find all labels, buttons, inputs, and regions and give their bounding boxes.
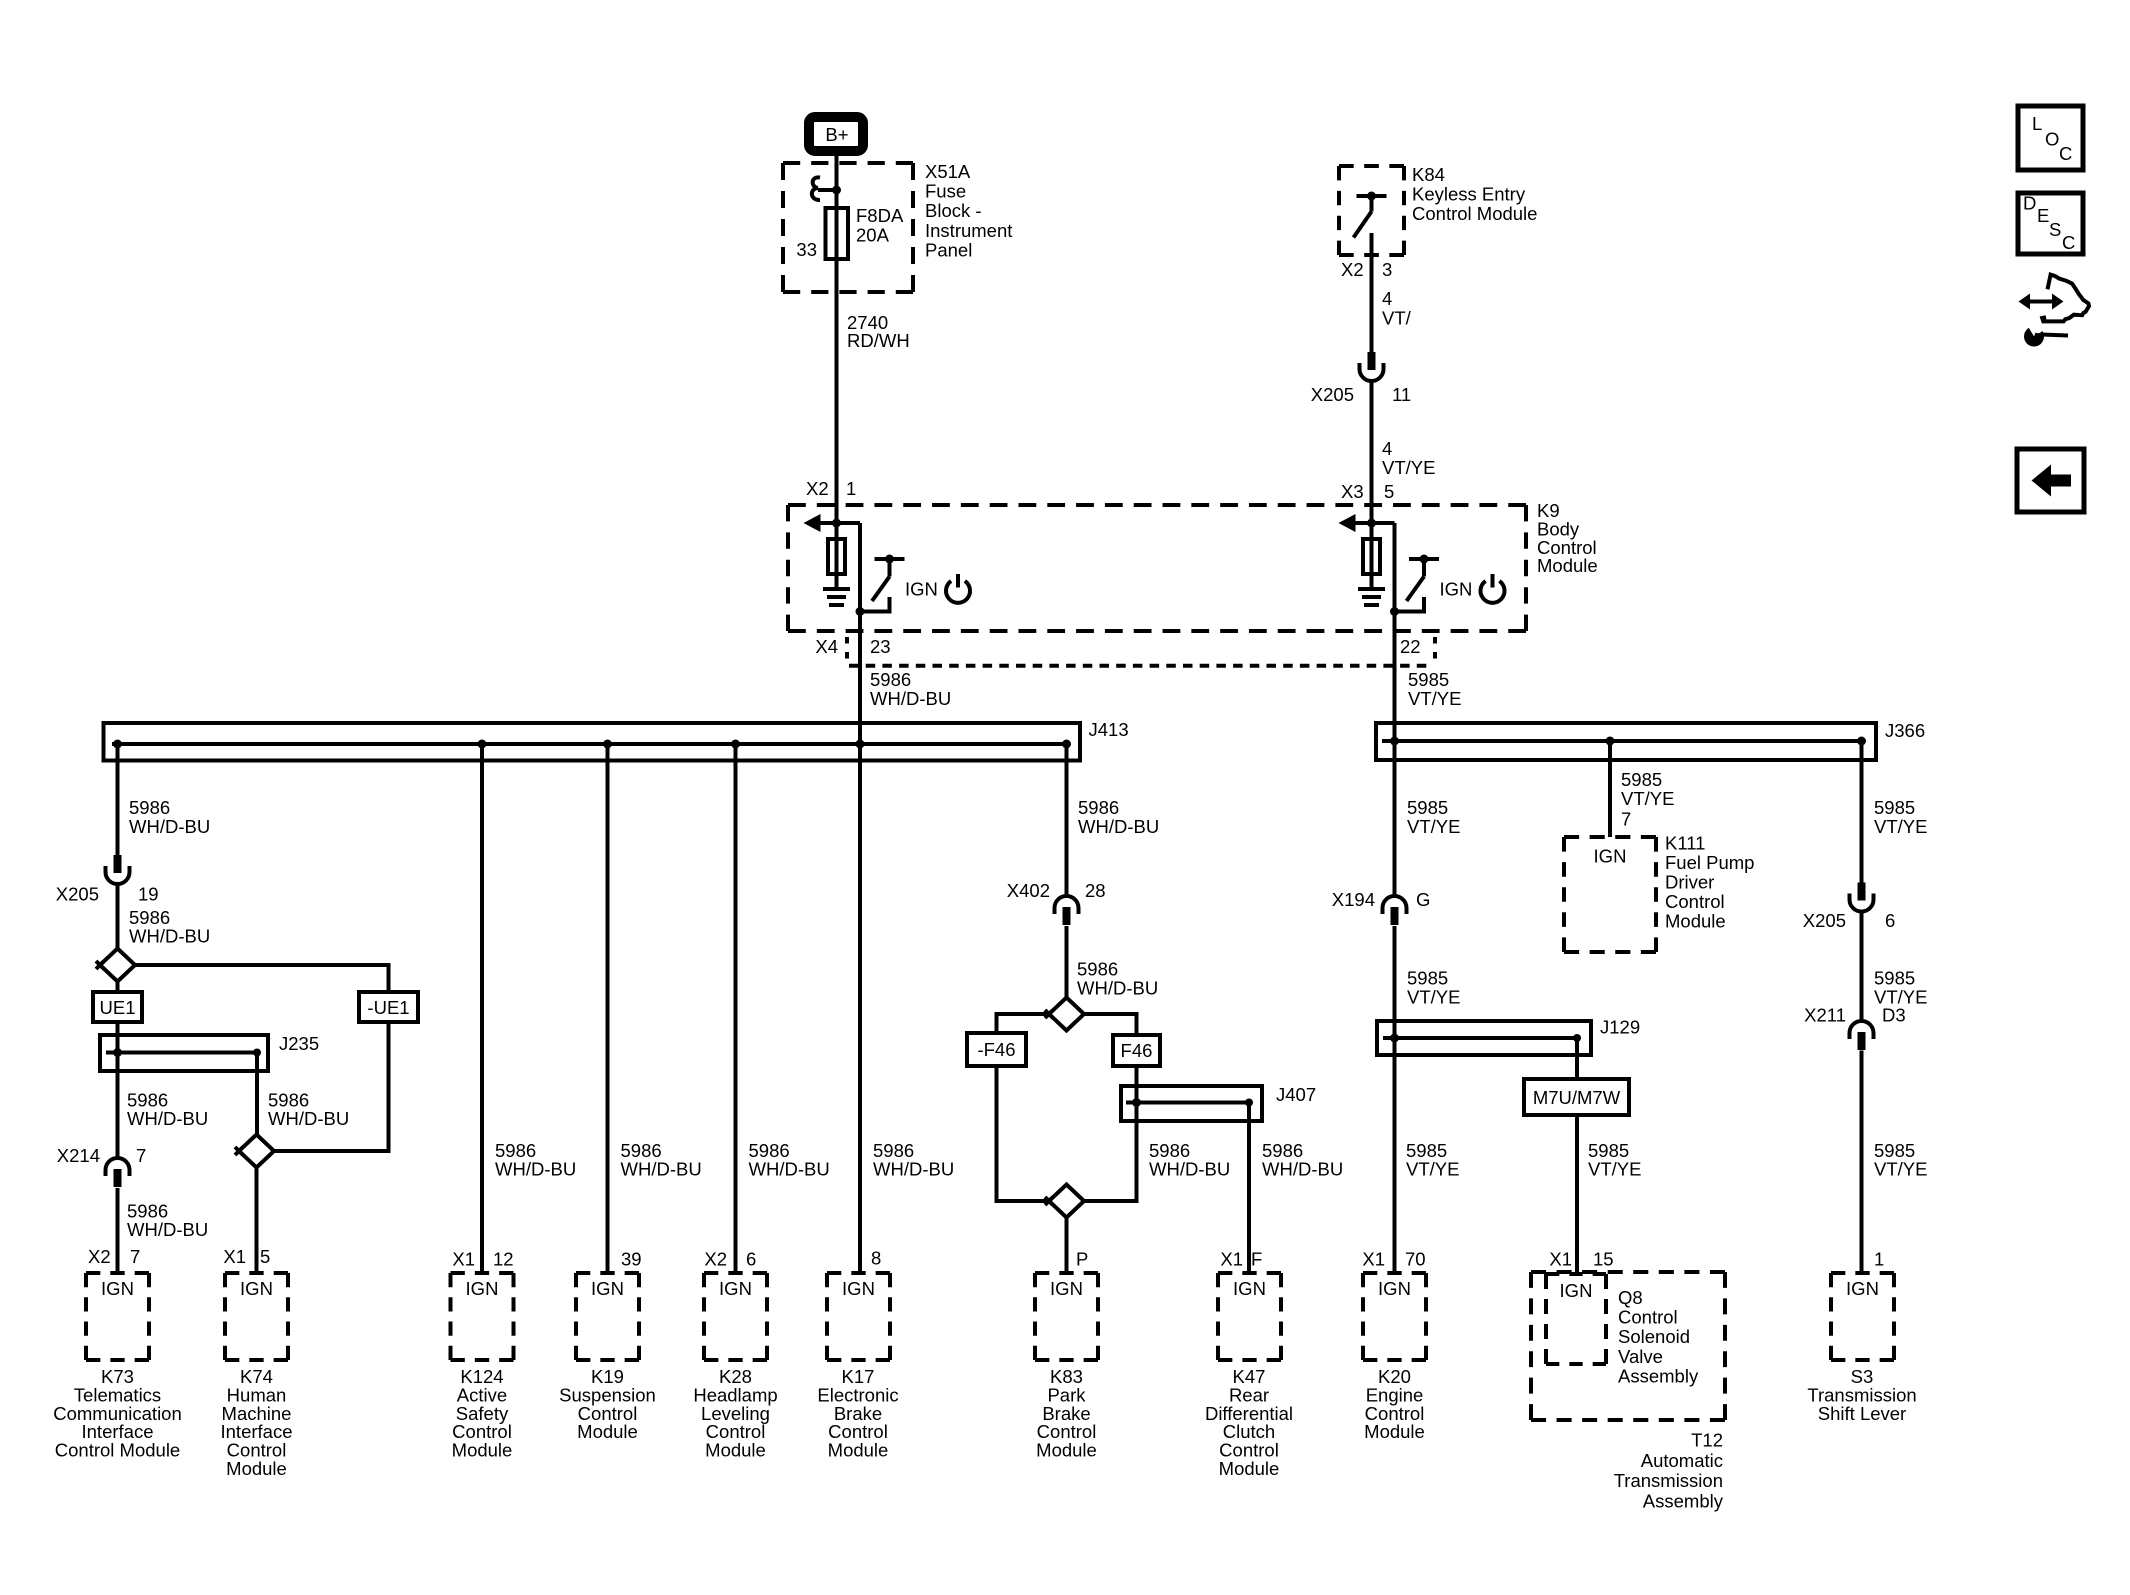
svg-text:Valve: Valve — [1618, 1346, 1663, 1367]
svg-text:X211: X211 — [1804, 1005, 1846, 1026]
node: J129 tap — [1390, 1034, 1399, 1043]
svg-text:5985: 5985 — [1407, 968, 1448, 989]
wire: through resistor to ground — [1370, 523, 1374, 587]
svg-text:VT/: VT/ — [1382, 308, 1412, 329]
svg-text:7: 7 — [1621, 809, 1631, 830]
wire: splice to UE1 — [116, 982, 120, 993]
svg-text:X51A: X51A — [925, 161, 971, 182]
wire 5985 VT/YE: J366 right end to X205-6 — [1860, 741, 1864, 883]
svg-text:-F46: -F46 — [977, 1039, 1015, 1060]
wire: BCM internal horizontal from arrow to corner — [1355, 521, 1395, 525]
svg-text:5985: 5985 — [1621, 769, 1662, 790]
svg-text:WH/D-BU: WH/D-BU — [1149, 1159, 1230, 1180]
svg-text:Module: Module — [1537, 555, 1598, 576]
svg-text:VT/YE: VT/YE — [1408, 688, 1461, 709]
wire 5985 VT/YE: BCM X4-22 to J366 — [1393, 612, 1397, 897]
svg-text:X2: X2 — [806, 478, 829, 499]
svg-text:C: C — [2062, 232, 2075, 253]
resistor (pull-down) — [828, 539, 845, 574]
svg-text:15: 15 — [1593, 1249, 1614, 1270]
node: J413 tap — [603, 740, 612, 749]
wire: jog down to lower junction — [858, 523, 862, 612]
wire 5985 VT/YE: X211 to S3 — [1860, 1051, 1864, 1273]
svg-text:Assembly: Assembly — [1643, 1490, 1724, 1511]
svg-text:IGN: IGN — [1846, 1278, 1879, 1299]
svg-text:J366: J366 — [1885, 720, 1925, 741]
svg-text:IGN: IGN — [1440, 579, 1473, 600]
wire: splice to F46 — [1084, 1014, 1137, 1035]
connector X205 pin 6 — [1858, 883, 1866, 901]
wire 5986 WH/D-BU: BCM X4-23 to J413 and K17 — [858, 612, 862, 1273]
svg-text:5986: 5986 — [870, 669, 911, 690]
connector X205 pin 11 — [1368, 352, 1376, 370]
wire: UE1 to J235 — [116, 1022, 120, 1035]
svg-text:5986: 5986 — [129, 797, 170, 818]
ground — [1358, 589, 1385, 605]
svg-text:Fuel Pump: Fuel Pump — [1665, 852, 1754, 873]
module K20 IGN box — [1363, 1271, 1426, 1275]
DESC button — [2018, 193, 2083, 254]
clip symbol — [812, 177, 820, 200]
node: J413 tap — [113, 740, 122, 749]
battery B+ terminal — [809, 117, 863, 151]
svg-text:IGN: IGN — [719, 1278, 752, 1299]
svg-text:VT/YE: VT/YE — [1407, 816, 1460, 837]
wire 5985 VT/YE: J129 to K20 — [1393, 1038, 1397, 1272]
svg-text:WH/D-BU: WH/D-BU — [1077, 978, 1158, 999]
wire: jog down to lower junction — [1393, 523, 1397, 612]
node: J413 tap — [856, 740, 865, 749]
wire: splice to K83 — [1065, 1218, 1069, 1273]
svg-text:VT/YE: VT/YE — [1406, 1159, 1459, 1180]
splice pack J413 — [104, 723, 1081, 761]
node: J235 tap right — [253, 1049, 261, 1057]
module K47 IGN box — [1218, 1271, 1281, 1275]
net F46 box — [1113, 1035, 1160, 1066]
switch inside K84 — [1357, 194, 1387, 198]
svg-text:IGN: IGN — [101, 1278, 134, 1299]
svg-text:X1: X1 — [1220, 1249, 1243, 1270]
svg-text:Block -: Block - — [925, 200, 982, 221]
svg-text:IGN: IGN — [1233, 1278, 1266, 1299]
connector X4 row (dotted) — [849, 664, 1433, 668]
svg-text:X2: X2 — [1341, 259, 1364, 280]
svg-text:IGN: IGN — [466, 1278, 499, 1299]
svg-text:Keyless Entry: Keyless Entry — [1412, 183, 1526, 204]
node: J235 tap left — [113, 1048, 122, 1057]
svg-text:X205: X205 — [56, 884, 99, 905]
node: J407 tap — [1132, 1098, 1141, 1107]
svg-text:6: 6 — [1885, 910, 1895, 931]
wire 5986 WH/D-BU: J413 left to X205-19 — [116, 744, 120, 855]
svg-text:X205: X205 — [1311, 384, 1354, 405]
svg-text:J129: J129 — [1600, 1017, 1640, 1038]
svg-text:7: 7 — [130, 1246, 140, 1267]
svg-text:8: 8 — [871, 1248, 881, 1269]
splice diamond (F46) — [1049, 998, 1084, 1031]
LOC button — [2018, 106, 2083, 170]
svg-text:22: 22 — [1400, 636, 1421, 657]
wire: splice down to K74 — [255, 1168, 259, 1273]
svg-text:3: 3 — [1382, 259, 1392, 280]
switch IGN — [875, 557, 905, 561]
svg-text:Shift Lever: Shift Lever — [1818, 1403, 1906, 1424]
net -UE1 box — [359, 992, 418, 1022]
svg-text:T12: T12 — [1691, 1430, 1723, 1451]
svg-text:K111: K111 — [1665, 833, 1705, 854]
arrow (to other sheet) — [804, 514, 821, 532]
svg-text:WH/D-BU: WH/D-BU — [870, 688, 951, 709]
svg-text:1: 1 — [1874, 1249, 1884, 1270]
svg-text:11: 11 — [1392, 384, 1411, 405]
wire 5985 VT/YE: J366 to X194 and down — [1393, 741, 1397, 896]
svg-text:VT/YE: VT/YE — [1874, 1159, 1927, 1180]
module K83 IGN box — [1035, 1271, 1098, 1275]
svg-text:VT/YE: VT/YE — [1407, 987, 1460, 1008]
svg-text:5986: 5986 — [1077, 959, 1118, 980]
svg-text:IGN: IGN — [591, 1278, 624, 1299]
wire 5985 VT/YE 7: J366 tap to K111 — [1608, 741, 1612, 837]
svg-text:Panel: Panel — [925, 239, 972, 260]
resistor (pull-down) — [1363, 539, 1380, 574]
node: J413 tap — [1062, 740, 1071, 749]
svg-text:WH/D-BU: WH/D-BU — [873, 1159, 954, 1180]
svg-text:20A: 20A — [856, 225, 890, 246]
svg-text:IGN: IGN — [1560, 1280, 1593, 1301]
K9 Body Control Module dashed box — [788, 503, 1526, 507]
svg-text:Driver: Driver — [1665, 872, 1714, 893]
arrow (to other sheet) — [1339, 514, 1356, 532]
svg-text:J413: J413 — [1089, 719, 1129, 740]
svg-text:Fuse: Fuse — [925, 181, 966, 202]
svg-text:5985: 5985 — [1408, 669, 1449, 690]
splice diamond (J235 branch) — [239, 1135, 274, 1168]
net -F46 box — [967, 1033, 1026, 1066]
module S3 IGN box — [1831, 1271, 1894, 1275]
node: junction at bottom — [1390, 607, 1399, 616]
svg-text:IGN: IGN — [905, 579, 938, 600]
svg-text:J235: J235 — [279, 1033, 319, 1054]
svg-text:5985: 5985 — [1874, 968, 1915, 989]
svg-text:IGN: IGN — [1594, 846, 1627, 867]
svg-text:F: F — [1251, 1249, 1262, 1270]
module K19 IGN box — [576, 1271, 639, 1275]
wire: J235 right tap down to splice — [255, 1053, 259, 1136]
wire label 4 VT/YE — [1370, 381, 1374, 523]
svg-text:O: O — [2045, 129, 2059, 150]
wire: through resistor to ground — [835, 523, 839, 587]
wire: B+ through fuse to K9 — [835, 156, 839, 523]
splice pack J129 — [1377, 1021, 1591, 1055]
svg-text:X1: X1 — [1549, 1249, 1572, 1270]
wire 5986 WH/D-BU: J407 to K47 — [1247, 1103, 1251, 1273]
svg-text:WH/D-BU: WH/D-BU — [749, 1159, 830, 1180]
svg-text:5986: 5986 — [1078, 797, 1119, 818]
svg-text:4: 4 — [1382, 288, 1392, 309]
svg-text:Module: Module — [226, 1458, 287, 1479]
svg-text:WH/D-BU: WH/D-BU — [621, 1159, 702, 1180]
wire 5986 WH/D-BU: J413 to module — [606, 744, 610, 1272]
svg-text:5: 5 — [1384, 481, 1394, 502]
switch IGN — [1409, 557, 1439, 561]
module Q8 IGN box — [1546, 1272, 1606, 1276]
svg-text:28: 28 — [1085, 880, 1106, 901]
connector X205 pin 19 — [114, 855, 122, 873]
K111 Fuel Pump Driver Control Module dashed box — [1564, 835, 1656, 839]
svg-text:IGN: IGN — [240, 1278, 273, 1299]
svg-text:5985: 5985 — [1874, 797, 1915, 818]
svg-text:L: L — [2032, 113, 2042, 134]
connector X194 pin G — [1383, 896, 1407, 914]
svg-text:Module: Module — [828, 1440, 889, 1461]
splice diamond (park brake) — [1049, 1185, 1084, 1218]
wire 5986 WH/D-BU: X214 to K73 — [116, 1188, 120, 1272]
svg-text:Control Module: Control Module — [1412, 203, 1537, 224]
svg-text:Module: Module — [1364, 1421, 1425, 1442]
svg-text:WH/D-BU: WH/D-BU — [268, 1108, 349, 1129]
svg-text:X205: X205 — [1803, 910, 1846, 931]
svg-text:WH/D-BU: WH/D-BU — [127, 1108, 208, 1129]
module K17 IGN box — [827, 1271, 890, 1275]
svg-text:1: 1 — [846, 478, 856, 499]
svg-text:VT/YE: VT/YE — [1874, 816, 1927, 837]
svg-text:X214: X214 — [57, 1145, 100, 1166]
svg-text:23: 23 — [870, 636, 891, 657]
svg-text:Q8: Q8 — [1618, 1287, 1643, 1308]
node: junction at bottom — [856, 607, 865, 616]
svg-text:70: 70 — [1405, 1249, 1426, 1270]
wire: J129 right end to M7U/M7W — [1575, 1038, 1579, 1079]
svg-text:P: P — [1076, 1249, 1088, 1270]
svg-text:K84: K84 — [1412, 164, 1445, 185]
node: J413 tap — [478, 740, 487, 749]
wire: F46 down through J407 to lower splice — [1084, 1066, 1137, 1201]
wire 5986 WH/D-BU: J413 to module — [734, 744, 738, 1272]
svg-text:WH/D-BU: WH/D-BU — [129, 816, 210, 837]
svg-text:X194: X194 — [1332, 889, 1375, 910]
svg-text:WH/D-BU: WH/D-BU — [495, 1159, 576, 1180]
node: junction at top — [1367, 519, 1376, 528]
svg-text:E: E — [2037, 205, 2049, 226]
svg-text:IGN: IGN — [842, 1278, 875, 1299]
svg-text:Module: Module — [452, 1440, 513, 1461]
module K124 IGN box — [451, 1271, 514, 1275]
net M7U/M7W box — [1524, 1079, 1629, 1115]
svg-text:Module: Module — [705, 1440, 766, 1461]
node: J129 right end — [1573, 1034, 1581, 1042]
svg-text:6: 6 — [746, 1249, 756, 1270]
ground — [823, 589, 850, 605]
svg-text:X2: X2 — [88, 1246, 111, 1267]
svg-text:Assembly: Assembly — [1618, 1365, 1699, 1386]
wire: splice to -F46 — [997, 1014, 1050, 1033]
wire: splice to -UE1 — [135, 965, 389, 992]
wire 5986 WH/D-BU: X402 to splice — [1065, 926, 1069, 998]
node: fuse feed junction — [832, 186, 841, 195]
connector X402 pin 28 — [1055, 896, 1079, 914]
module K73 IGN box — [86, 1271, 149, 1275]
svg-text:5: 5 — [260, 1246, 270, 1267]
fuse block X51A dashed box — [783, 161, 913, 165]
svg-text:IGN: IGN — [1050, 1278, 1083, 1299]
svg-text:F8DA: F8DA — [856, 205, 904, 226]
wire: -F46 down to lower splice — [997, 1066, 1050, 1201]
wire 5986 WH/D-BU: X205 to splice — [116, 884, 120, 948]
svg-text:12: 12 — [493, 1249, 514, 1270]
power symbol — [1481, 581, 1505, 603]
splice pack J407 — [1121, 1086, 1262, 1121]
svg-text:4: 4 — [1382, 438, 1392, 459]
wire: K84 pin 3 down — [1370, 233, 1374, 352]
svg-text:RD/WH: RD/WH — [847, 330, 910, 351]
svg-text:X1: X1 — [223, 1246, 246, 1267]
node: J366 tap — [1606, 737, 1615, 746]
svg-text:VT/YE: VT/YE — [1588, 1159, 1641, 1180]
svg-text:X1: X1 — [452, 1249, 475, 1270]
svg-text:Module: Module — [1219, 1458, 1280, 1479]
svg-text:Module: Module — [1665, 911, 1726, 932]
svg-text:C: C — [2059, 143, 2072, 164]
svg-text:B+: B+ — [825, 124, 848, 145]
fuse F8DA 20A — [826, 208, 849, 259]
wire 5985 VT/YE: X205 to X211 — [1860, 912, 1864, 1022]
wire: BCM internal horizontal from arrow to corner — [820, 521, 861, 525]
svg-text:33: 33 — [796, 239, 817, 260]
svg-text:Module: Module — [577, 1421, 638, 1442]
svg-text:5985: 5985 — [1407, 797, 1448, 818]
svg-text:Transmission: Transmission — [1614, 1470, 1723, 1491]
svg-text:Instrument: Instrument — [925, 220, 1012, 241]
node: J366 tap — [1390, 737, 1399, 746]
wire 5986 WH/D-BU: J413 to module — [480, 744, 484, 1272]
net UE1 box — [93, 992, 142, 1022]
svg-text:Control: Control — [1665, 891, 1725, 912]
svg-text:Control: Control — [1618, 1307, 1678, 1328]
svg-text:X4: X4 — [815, 636, 838, 657]
svg-text:Solenoid: Solenoid — [1618, 1326, 1690, 1347]
node: J413 tap — [731, 740, 740, 749]
svg-text:WH/D-BU: WH/D-BU — [127, 1219, 208, 1240]
svg-text:X2: X2 — [704, 1249, 727, 1270]
svg-text:S: S — [2049, 219, 2061, 240]
back arrow button — [2017, 449, 2084, 512]
module K74 IGN box — [225, 1271, 288, 1275]
splice diamond (UE1) — [100, 949, 135, 982]
svg-text:UE1: UE1 — [100, 997, 136, 1018]
wire: splice to -UE1 bottom — [274, 1022, 389, 1151]
module T12 outer dashed box — [1531, 1270, 1725, 1274]
power symbol — [946, 581, 970, 603]
svg-text:X1: X1 — [1362, 1249, 1385, 1270]
connector X211 pin D3 — [1850, 1021, 1874, 1039]
svg-text:WH/D-BU: WH/D-BU — [1078, 816, 1159, 837]
wire: through J235 down to X214 — [116, 1035, 120, 1158]
svg-text:G: G — [1416, 889, 1430, 910]
svg-text:F46: F46 — [1121, 1040, 1153, 1061]
svg-text:M7U/M7W: M7U/M7W — [1533, 1087, 1621, 1108]
svg-text:D: D — [2023, 193, 2036, 214]
svg-text:Control Module: Control Module — [55, 1440, 180, 1461]
splice pack J366 — [1376, 723, 1876, 760]
svg-text:Automatic: Automatic — [1641, 1450, 1723, 1471]
module K28 IGN box — [704, 1271, 767, 1275]
svg-text:WH/D-BU: WH/D-BU — [1262, 1159, 1343, 1180]
svg-text:-UE1: -UE1 — [367, 997, 409, 1018]
node: J407 right end — [1245, 1099, 1253, 1107]
svg-text:VT/YE: VT/YE — [1621, 788, 1674, 809]
svg-text:VT/YE: VT/YE — [1382, 457, 1435, 478]
svg-text:D3: D3 — [1882, 1005, 1906, 1026]
K84 Keyless Entry Control Module dashed box — [1339, 164, 1404, 168]
svg-text:Module: Module — [1036, 1440, 1097, 1461]
svg-text:IGN: IGN — [1378, 1278, 1411, 1299]
splice pack J235 — [100, 1035, 268, 1071]
node: J366 tap — [1857, 737, 1866, 746]
svg-text:X3: X3 — [1341, 481, 1364, 502]
wire 5986 WH/D-BU: J413 right end down to X402 — [1065, 744, 1069, 896]
node: junction at top — [832, 519, 841, 528]
svg-text:WH/D-BU: WH/D-BU — [129, 926, 210, 947]
connector X214 pin 7 — [106, 1158, 130, 1176]
svg-text:19: 19 — [138, 884, 159, 905]
wire 5985 VT/YE: X194 to J129 — [1393, 926, 1397, 1038]
svg-text:7: 7 — [136, 1145, 146, 1166]
svg-text:X402: X402 — [1007, 880, 1050, 901]
car/wrench icon — [2028, 300, 2054, 304]
svg-text:39: 39 — [621, 1249, 642, 1270]
wire 5985 VT/YE: M7U/M7W to Q8 — [1575, 1115, 1579, 1274]
svg-text:J407: J407 — [1276, 1084, 1316, 1105]
